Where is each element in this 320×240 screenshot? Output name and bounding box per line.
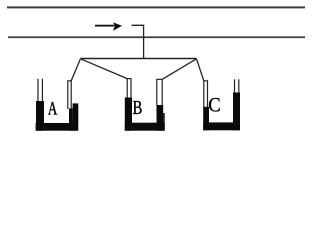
wire manifold to tube B right [162, 59, 196, 80]
wire manifold to tube C [197, 59, 204, 81]
label A [48, 102, 57, 115]
tube B-left [127, 79, 132, 99]
label B [133, 101, 142, 114]
wire manifold to tube B left [81, 59, 128, 79]
vessel A liquid [36, 101, 79, 131]
tube C-left [203, 81, 208, 108]
vessel B liquid [125, 98, 165, 131]
flow arrow [95, 22, 122, 31]
wire manifold to tube A [71, 59, 80, 81]
label C [209, 98, 220, 112]
manifold [81, 58, 197, 60]
pipe bottom wall [8, 36, 305, 38]
pipe top wall [7, 6, 305, 8]
tube B-right [156, 79, 162, 105]
tube A-right [67, 81, 71, 109]
open tube A-left [38, 79, 42, 102]
vessel C liquid [203, 93, 240, 131]
open tube C-right [235, 79, 239, 93]
inlet tube [132, 25, 144, 58]
